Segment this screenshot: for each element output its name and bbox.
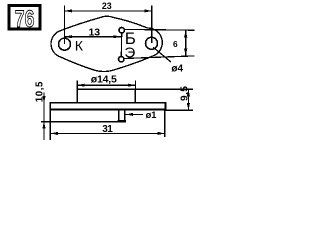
mounting hole left	[59, 38, 71, 50]
wire between pin circles	[120, 33, 122, 56]
extension line from pin B to dim 6	[125, 28, 194, 31]
pin B (base) circle	[119, 28, 124, 33]
dimension 6 (right side)	[173, 30, 187, 56]
extension line from pin E to dim 6	[124, 56, 194, 59]
svg-text:10,5: 10,5	[34, 81, 45, 102]
dimension 23	[64, 1, 151, 43]
dimension 9,5 (right)	[137, 86, 193, 111]
svg-text:6: 6	[173, 39, 178, 49]
side view: cap	[77, 89, 135, 103]
svg-text:К: К	[75, 39, 84, 55]
mounting hole right	[146, 37, 158, 49]
hole diameter label d4 with leader	[154, 48, 184, 75]
pin E (emitter) circle	[119, 57, 124, 62]
svg-text:ø1: ø1	[146, 110, 157, 120]
svg-text:ø4: ø4	[171, 64, 183, 75]
pin bottom extension line	[42, 121, 119, 123]
svg-text:ø14,5: ø14,5	[91, 74, 117, 86]
svg-text:23: 23	[102, 1, 112, 11]
dimension 10,5 (left)	[34, 81, 45, 140]
side view: pin	[119, 109, 125, 121]
dimension 13	[65, 27, 121, 39]
side view: flange plate	[50, 103, 165, 110]
svg-text:9,5: 9,5	[179, 86, 190, 101]
dimension 14,5 (cap diameter)	[77, 74, 135, 90]
svg-text:13: 13	[88, 27, 100, 39]
dimension 31 (bottom)	[50, 110, 165, 139]
svg-text:76: 76	[15, 5, 35, 33]
drawing number box 76	[9, 5, 40, 33]
flange outline (top view)	[51, 16, 162, 71]
pin diameter label d1 with leader arrow	[126, 110, 157, 120]
svg-text:31: 31	[102, 124, 113, 135]
